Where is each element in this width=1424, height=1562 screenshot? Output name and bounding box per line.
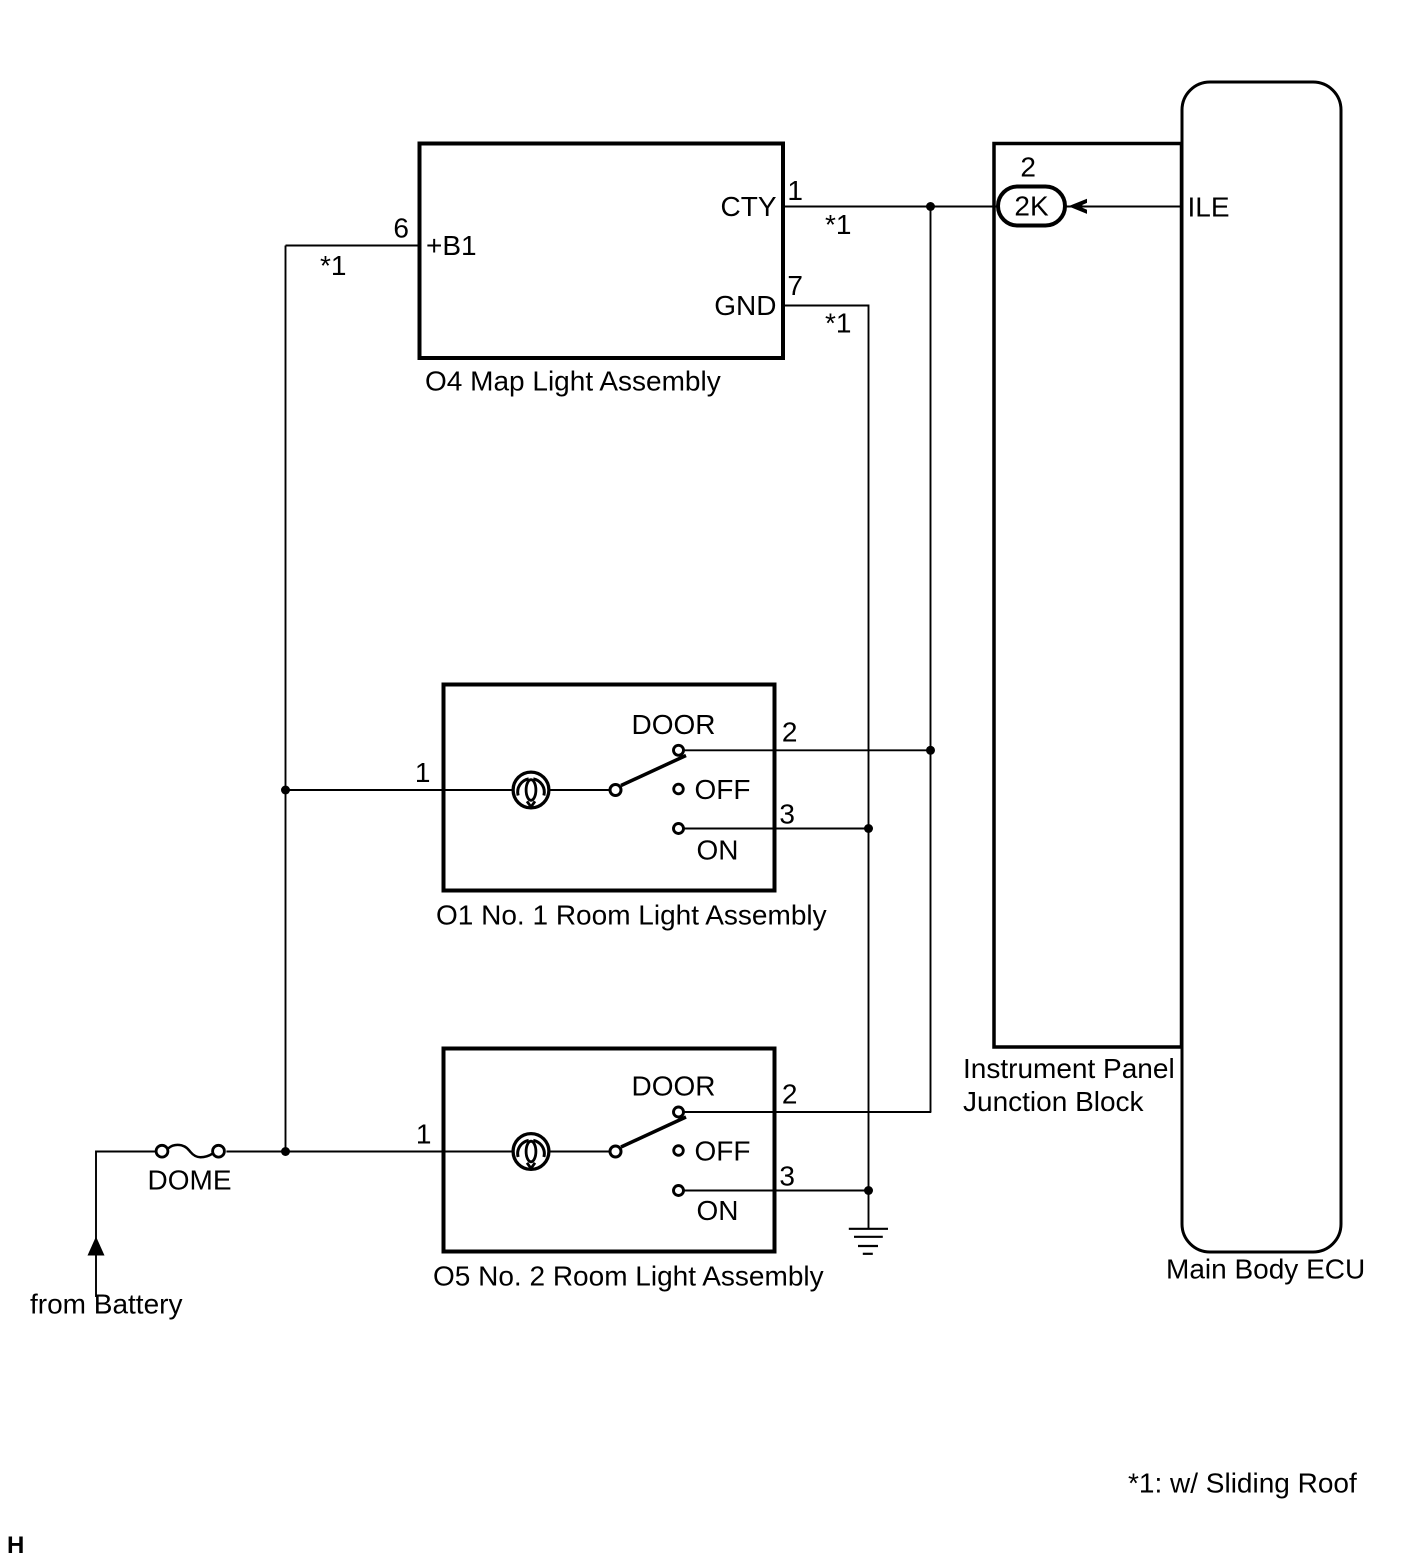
svg-text:2: 2 <box>1020 152 1036 183</box>
svg-text:GND: GND <box>714 290 776 321</box>
contact O5 ON <box>674 1186 684 1196</box>
switch O5 pivot <box>610 1146 621 1157</box>
svg-text:ON: ON <box>697 835 739 866</box>
svg-text:ON: ON <box>697 1195 739 1226</box>
svg-text:DOME: DOME <box>148 1165 232 1196</box>
svg-text:7: 7 <box>787 270 803 301</box>
svg-text:1: 1 <box>416 1119 432 1150</box>
connector box O1 No. 1 Room Light Assembly <box>444 685 775 891</box>
connector block Instrument Panel Junction Block <box>994 144 1182 1048</box>
svg-text:OFF: OFF <box>695 774 751 805</box>
node CTY / DOOR-bus junction <box>926 202 935 211</box>
svg-text:from Battery: from Battery <box>30 1289 182 1320</box>
wire +B1 to left bus <box>286 245 420 247</box>
connector box O4 Map Light Assembly <box>420 144 784 359</box>
svg-text:Junction Block: Junction Block <box>963 1086 1145 1117</box>
lamp O5 bulb <box>513 1134 549 1170</box>
ECU Main Body ECU <box>1182 82 1341 1252</box>
svg-text:*1: *1 <box>825 209 851 240</box>
svg-text:*1: *1 <box>825 308 851 339</box>
wire GND to ground bus <box>783 306 869 1229</box>
svg-text:3: 3 <box>779 1161 795 1192</box>
svg-text:3: 3 <box>779 799 795 830</box>
contact O5 OFF <box>674 1146 684 1156</box>
contact O1 OFF <box>674 784 684 794</box>
svg-text:H: H <box>7 1532 24 1559</box>
wire O5 lamp to switch pivot <box>551 1151 612 1153</box>
fuse DOME <box>156 1145 224 1157</box>
node left bus / O1 pin 1 <box>281 786 290 795</box>
wire O5 pin 1 from fuse to lamp <box>226 1151 511 1153</box>
connector 2K oval <box>998 187 1065 226</box>
svg-text:1: 1 <box>415 757 431 788</box>
wire DOOR bus vertical (2K junction down to O5) <box>930 207 932 1113</box>
svg-text:O4 Map Light Assembly: O4 Map Light Assembly <box>425 366 721 397</box>
ground symbol <box>849 1229 888 1254</box>
lamp O1 bulb <box>513 772 549 808</box>
svg-text:DOOR: DOOR <box>632 709 716 740</box>
svg-text:DOOR: DOOR <box>632 1071 716 1102</box>
wire O1 lamp to switch pivot <box>551 789 612 791</box>
node left bus / DOME wire <box>281 1147 290 1156</box>
svg-text:*1: w/ Sliding Roof: *1: w/ Sliding Roof <box>1128 1468 1357 1499</box>
svg-text:2K: 2K <box>1014 191 1049 222</box>
svg-text:Instrument Panel: Instrument Panel <box>963 1053 1175 1084</box>
svg-text:*1: *1 <box>320 250 346 281</box>
node O1 ON / ground bus junction <box>864 824 873 833</box>
svg-text:2: 2 <box>782 1079 798 1110</box>
svg-text:+B1: +B1 <box>426 230 477 261</box>
wire ILE to 2K <box>1066 206 1182 208</box>
node O5 ON / ground junction <box>864 1186 873 1195</box>
contact O5 DOOR <box>674 1107 684 1117</box>
arrow signal direction into 2K <box>1068 199 1087 214</box>
wire battery riser <box>96 1152 155 1298</box>
wire O1 pin 1 from left bus to lamp <box>286 789 512 791</box>
svg-text:2: 2 <box>782 717 798 748</box>
switch O1 pivot <box>610 785 621 796</box>
connector box O5 No. 2 Room Light Assembly <box>444 1049 775 1252</box>
svg-text:1: 1 <box>787 175 803 206</box>
contact O1 DOOR <box>674 745 684 755</box>
arrow from battery <box>88 1237 105 1256</box>
svg-text:OFF: OFF <box>695 1136 751 1167</box>
wire O1 ON pin 3 to ground bus <box>684 828 869 830</box>
svg-text:ILE: ILE <box>1188 192 1230 223</box>
left bus wire <box>285 246 287 1152</box>
svg-text:O5 No. 2 Room Light Assembly: O5 No. 2 Room Light Assembly <box>433 1261 824 1292</box>
switch O5 arm <box>621 1117 686 1147</box>
wire O5 DOOR pin 2 to bus corner <box>684 1111 931 1113</box>
contact O1 ON <box>674 824 684 834</box>
svg-text:CTY: CTY <box>721 191 777 222</box>
wire O5 ON pin 3 to ground junction <box>684 1190 869 1192</box>
wire CTY to connector 2K <box>783 206 997 208</box>
svg-text:6: 6 <box>393 213 409 244</box>
svg-text:Main Body ECU: Main Body ECU <box>1166 1254 1365 1285</box>
svg-text:O1 No. 1 Room Light Assembly: O1 No. 1 Room Light Assembly <box>436 900 827 931</box>
node O1 DOOR / bus junction <box>926 746 935 755</box>
wire O1 DOOR pin 2 to bus <box>684 749 931 751</box>
switch O1 arm <box>621 756 686 786</box>
